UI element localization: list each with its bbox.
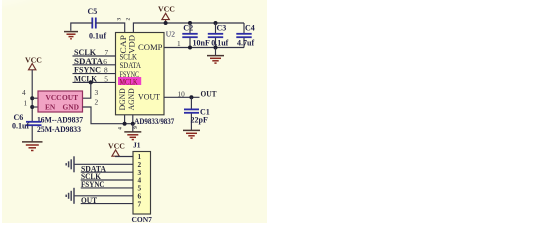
svg-text:COMP: COMP [138, 43, 163, 52]
wire VOUT to OUT [164, 96, 200, 98]
svg-text:10nF: 10nF [193, 39, 210, 48]
svg-text:CAP: CAP [119, 34, 128, 53]
node C3 bottom junction [214, 46, 218, 50]
wire SCLK [73, 55, 116, 57]
node VCC rail junction [164, 21, 168, 25]
svg-text:0.1uf: 0.1uf [211, 39, 228, 48]
node osc pin4 junction [30, 96, 34, 100]
power VCC (left) [25, 55, 42, 70]
svg-text:1: 1 [177, 39, 181, 48]
wire C5 to CAP pin of U2 [96, 23, 125, 33]
node osc pin1 junction [30, 105, 34, 109]
wire osc pin1 [32, 106, 38, 108]
svg-text:9: 9 [133, 126, 139, 129]
wire to IC ground [132, 124, 134, 132]
wire VCC to J1 pin1 [116, 155, 133, 157]
ground under U2 [124, 132, 141, 140]
ground under C5 [64, 32, 78, 39]
svg-text:VOUT: VOUT [138, 93, 160, 102]
svg-text:SCLK: SCLK [120, 52, 138, 61]
capacitor C1 [184, 97, 199, 130]
wire AGND pin stub [132, 115, 134, 124]
svg-text:4.7uf: 4.7uf [237, 39, 254, 48]
svg-text:VCC: VCC [158, 5, 175, 14]
wire J1 pin3 SDATA [81, 171, 133, 173]
U2 pin name MCLK highlighted [118, 77, 141, 85]
wire J1 pin5 FSYNC [81, 187, 133, 189]
svg-text:CON7: CON7 [132, 215, 153, 224]
svg-text:3: 3 [117, 18, 123, 21]
wire J1 pin6 to ground [74, 195, 133, 197]
svg-text:J1: J1 [133, 141, 141, 150]
ground under C1 [183, 130, 200, 138]
power VCC (top) [158, 5, 175, 24]
op IC U2 body AD9833 [116, 33, 165, 115]
power VCC (J1) [108, 142, 125, 157]
ground under C6 [22, 142, 43, 151]
svg-text:10: 10 [178, 89, 186, 98]
svg-text:2: 2 [126, 18, 132, 21]
svg-text:16M--AD9837: 16M--AD9837 [37, 115, 83, 124]
svg-text:22pF: 22pF [191, 115, 208, 124]
node C2 top junction [188, 21, 192, 25]
svg-text:4: 4 [118, 127, 124, 130]
wire left VCC rail [31, 70, 33, 122]
wire J1 pin7 OUT [81, 203, 133, 205]
capacitor C4 [236, 23, 251, 48]
ground under C3 [207, 56, 224, 64]
wire osc pin4 [32, 97, 38, 99]
svg-text:C5: C5 [88, 7, 98, 16]
wire J1 pin2 to ground [74, 163, 133, 165]
wire SDATA [73, 64, 116, 66]
wire FSYNC [73, 73, 116, 75]
wire osc pin2 GND route to IC ground [83, 107, 133, 124]
capacitor C5 [92, 18, 96, 29]
svg-text:VCC: VCC [25, 55, 42, 64]
svg-text:DGND: DGND [118, 88, 127, 110]
svg-text:OUT: OUT [62, 93, 78, 102]
svg-text:4: 4 [22, 88, 26, 97]
svg-text:0.1uf: 0.1uf [89, 32, 106, 41]
node MCLK junction [89, 80, 93, 84]
svg-text:25M-AD9833: 25M-AD9833 [37, 125, 81, 134]
svg-text:C4: C4 [245, 24, 255, 33]
node C3 top junction [214, 21, 218, 25]
oscillator module X1 body [38, 91, 83, 112]
connector J1 body [133, 152, 151, 215]
J1 pin numbers 1-7 [138, 152, 142, 208]
wire COMP pin 1 to decoupling caps bottom rail [164, 47, 244, 49]
svg-text:AD9833/9837: AD9833/9837 [134, 117, 174, 126]
svg-text:VCC: VCC [46, 93, 62, 102]
node AGND junction [131, 122, 135, 126]
capacitor C2 [182, 23, 197, 48]
svg-text:EN: EN [45, 103, 56, 112]
wire MCLK [73, 81, 116, 83]
svg-text:VCC: VCC [108, 142, 125, 151]
svg-text:2: 2 [95, 97, 99, 106]
svg-text:C2: C2 [183, 24, 193, 33]
node VOUT junction [189, 95, 193, 99]
svg-text:VDD: VDD [128, 35, 137, 54]
svg-text:3: 3 [95, 88, 99, 97]
svg-text:0.1uf: 0.1uf [12, 121, 29, 130]
wire C5 left lead to ground [71, 23, 93, 31]
wire C3 bottom to ground [215, 48, 217, 56]
wire J1 pin4 SCLK [81, 179, 133, 181]
ground sideways at J1 pin6 [66, 188, 74, 204]
svg-text:GND: GND [63, 103, 79, 112]
schematic sheet background [2, 0, 267, 223]
svg-text:U2: U2 [166, 30, 175, 39]
svg-text:OUT: OUT [201, 90, 218, 99]
capacitor C6 [26, 122, 42, 142]
wire MCLK to oscillator OUT [83, 82, 91, 98]
svg-text:C3: C3 [217, 24, 227, 33]
wire DGND pin stub [124, 115, 126, 124]
node DGND junction [123, 122, 127, 126]
svg-text:SDATA: SDATA [120, 61, 142, 70]
svg-text:1: 1 [24, 98, 28, 107]
ground sideways at J1 pin2 [66, 156, 74, 172]
svg-text:MCLK: MCLK [120, 77, 138, 86]
node C2 bottom junction [188, 46, 192, 50]
capacitor C3 [208, 23, 223, 48]
svg-text:7: 7 [138, 199, 142, 208]
svg-text:AGND: AGND [127, 88, 136, 110]
wire VCC rail to VDD pin and caps [133, 23, 244, 33]
